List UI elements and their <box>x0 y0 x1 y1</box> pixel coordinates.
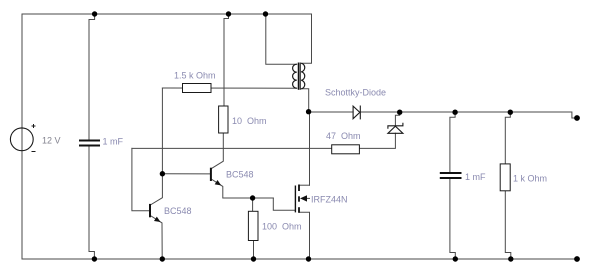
wire 10 Ohm top branch with jog <box>224 14 229 106</box>
svg-text:1.5 k Ohm: 1.5 k Ohm <box>174 71 216 81</box>
wire Q2 collector to 10 Ohm <box>211 133 223 169</box>
node bottom 100 Ohm <box>251 256 256 261</box>
wire bottom rail <box>22 258 577 260</box>
wire capacitor C1 top branch with jog <box>89 14 95 140</box>
wire capacitor C1 bottom branch with jog <box>89 147 94 260</box>
node output terminal minus <box>574 256 580 262</box>
node bottom C1 <box>92 256 97 261</box>
wire 1.5k lead and transformer primary bottom <box>162 87 296 89</box>
wire MOSFET source stub and down to rail <box>300 212 310 259</box>
svg-text:100 Ohm: 100 Ohm <box>262 222 302 232</box>
node bottom 1k <box>508 256 513 261</box>
wire 1k resistor top branch with jog <box>505 112 510 164</box>
node gate / 100 Ohm <box>250 195 255 200</box>
diode D1 Schottky <box>353 106 360 120</box>
wire transformer secondary bottom to node A <box>301 89 309 112</box>
svg-text:BC548: BC548 <box>226 170 254 180</box>
wire transformer primary top left <box>266 14 297 64</box>
svg-text:12 V: 12 V <box>42 136 61 146</box>
wire capacitor C2 top branch with jog <box>450 112 455 172</box>
voltage source V1 12V <box>10 124 35 152</box>
resistor R4 47 Ohm box <box>332 145 360 154</box>
wire 1k resistor bottom branch with jog <box>505 191 511 259</box>
node bottom C2 <box>453 256 458 261</box>
wire Q1 collector <box>150 174 162 205</box>
resistor R1 1.5k box <box>183 84 212 93</box>
resistor R2 10 Ohm box <box>219 106 228 133</box>
wire capacitor C2 bottom branch with jog <box>450 179 455 259</box>
wire Schottky cathode to right terminal with jog <box>360 112 577 118</box>
MOSFET U1 IRFZ44N <box>295 185 307 213</box>
svg-text:47 Ohm: 47 Ohm <box>326 131 361 141</box>
svg-text:1 mF: 1 mF <box>103 137 124 147</box>
wire 100 Ohm top <box>252 198 254 211</box>
node output terminal plus <box>574 115 580 121</box>
wire feedback horizontal <box>132 147 332 149</box>
resistor R5 1 k Ohm box <box>500 164 510 191</box>
wire zener branch jog <box>395 112 399 126</box>
wire left vertical from source <box>21 14 23 259</box>
wire output node A to Schottky anode <box>309 111 353 113</box>
transformer T1 core <box>298 63 300 90</box>
wire 100 Ohm bottom <box>252 241 255 260</box>
wire MOSFET body to source <box>307 197 310 199</box>
wire Q2 base <box>162 173 210 175</box>
svg-text:1 k Ohm: 1 k Ohm <box>513 174 547 184</box>
transformer T1 primary winding <box>293 64 297 88</box>
node C2 top <box>452 110 457 115</box>
wire 47 Ohm to zener <box>359 133 395 148</box>
node Q2 base <box>160 171 165 176</box>
wire transformer secondary top right <box>301 14 311 63</box>
wire Q1 base branch <box>132 148 149 210</box>
wire vertical 1.5k to Q2 base node <box>161 88 163 174</box>
svg-text:Schottky-Diode: Schottky-Diode <box>325 88 386 98</box>
diode D2 zener <box>388 123 403 134</box>
svg-text:1 mF: 1 mF <box>465 172 486 182</box>
wire top rail <box>22 13 312 15</box>
wire MOSFET drain stub <box>300 184 310 186</box>
node bottom MOSFET source <box>306 256 311 261</box>
wire Q2 emitter to gate node <box>211 179 273 198</box>
transformer T1 secondary winding <box>301 63 305 89</box>
transistor Q1 BC548 <box>150 204 161 222</box>
node zener top <box>397 110 402 115</box>
transistor Q2 BC548 <box>211 168 221 186</box>
node A transformer/drain/diode <box>306 109 311 114</box>
capacitor C2 1mF plates <box>440 173 462 178</box>
wire node A vertical to MOSFET drain <box>309 112 311 186</box>
node top transformer <box>263 11 268 16</box>
node top C1 <box>92 11 97 16</box>
wire Q1 emitter to bottom rail <box>150 216 162 260</box>
node top 10 Ohm <box>226 11 231 16</box>
node 1k top <box>508 110 513 115</box>
svg-text:IRFZ44N: IRFZ44N <box>311 195 348 205</box>
svg-text:BC548: BC548 <box>164 206 192 216</box>
capacitor C1 1mF plates <box>79 141 100 146</box>
svg-text:10 Ohm: 10 Ohm <box>232 116 267 126</box>
wire gate jog <box>273 198 295 210</box>
node bottom Q1 emitter <box>160 256 165 261</box>
resistor R3 100 Ohm box <box>248 211 258 240</box>
